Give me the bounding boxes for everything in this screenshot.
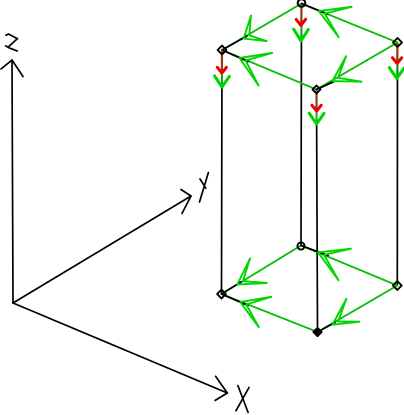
- green down arrow at TF: [309, 91, 324, 124]
- green edge arrow into BL (lower): [240, 297, 271, 327]
- node BR marker: [393, 281, 402, 290]
- wire: top face edge TR-TF: [317, 43, 398, 90]
- green edge arrow into TL (lower): [240, 53, 273, 85]
- node BB marker: [297, 242, 304, 249]
- y-axis arrowhead: [181, 190, 191, 214]
- wire: black stub BF toward BR: [318, 323, 336, 333]
- red down arrow at TR: [393, 44, 402, 64]
- wire: bottom face edge BL-BF: [222, 294, 318, 332]
- green down arrow at TL: [215, 51, 230, 87]
- green edge arrow into BL (upper): [237, 259, 266, 285]
- green edge arrow into BF: [333, 299, 360, 325]
- node TB marker: [298, 0, 306, 7]
- green edge arrow into BB: [318, 249, 351, 281]
- wire: vertical edge TF-BF: [317, 90, 318, 333]
- wire: top face edge TL-TF: [222, 50, 317, 90]
- node BF marker: [313, 328, 322, 337]
- green down arrow at TB: [294, 5, 309, 41]
- wire: black stub TL toward TB: [222, 36, 247, 50]
- wire: bottom face edge BB-BR: [301, 246, 397, 286]
- wire: black stub TF toward TR: [317, 82, 335, 90]
- x-axis arrowhead: [215, 376, 227, 400]
- green down arrow at TR: [389, 44, 404, 79]
- wire: black stub BL toward BB: [222, 282, 242, 294]
- wire: black stub TL toward TF: [222, 50, 248, 62]
- red down arrow at TL: [217, 51, 226, 73]
- x label: [236, 386, 249, 413]
- wire: vertical edge TB-BB: [300, 4, 303, 246]
- wire: black stub BB toward BR: [301, 246, 328, 256]
- wire: vertical edge TL-BL: [221, 50, 224, 294]
- wire: black stub TB toward TR: [302, 4, 328, 15]
- z-axis shaft: [12, 60, 13, 303]
- z-axis arrowhead: [1, 60, 23, 77]
- node TR marker: [393, 38, 402, 47]
- green edge arrow into TL (upper): [244, 16, 267, 41]
- wire: vertical edge TR-BR: [396, 43, 398, 286]
- wire: top face edge TB-TR: [302, 4, 398, 43]
- green edge arrow into TB: [319, 7, 352, 37]
- wire: top face edge TB-TL: [222, 4, 302, 51]
- x-axis shaft: [13, 303, 227, 393]
- wire: bottom face edge BR-BF: [318, 286, 398, 333]
- y label: [200, 173, 209, 203]
- wire: black stub BL toward BF: [222, 294, 249, 306]
- node TL marker: [218, 46, 227, 55]
- node TF marker: [313, 86, 321, 94]
- wire: bottom face edge BB-BL: [222, 246, 302, 295]
- green edge arrow into TF: [332, 56, 361, 81]
- z label: [6, 34, 18, 51]
- node BL marker: [217, 290, 226, 299]
- red down arrow at TB: [296, 5, 305, 25]
- red down arrow at TF: [312, 91, 321, 111]
- y-axis shaft: [13, 196, 191, 303]
